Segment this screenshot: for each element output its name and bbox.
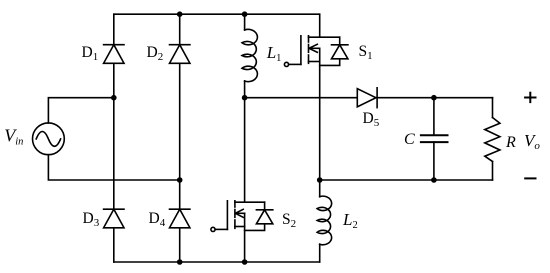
body diode S1	[332, 44, 348, 46]
node C top	[431, 95, 437, 101]
diode D4	[170, 209, 190, 228]
wire D5 to R	[376, 97, 493, 99]
svg-text:Vin: Vin	[4, 125, 23, 147]
svg-text:S2: S2	[282, 211, 296, 230]
wire S1 drain	[319, 14, 321, 37]
channel segments S2	[234, 201, 236, 207]
wire Vin top	[48, 98, 113, 123]
svg-text:D3: D3	[83, 210, 100, 229]
sine wave	[36, 132, 60, 147]
inductor L2	[317, 196, 332, 245]
diode D2	[170, 45, 190, 64]
gate bar S2	[226, 201, 228, 230]
svg-text:L2: L2	[342, 210, 358, 231]
node S1-L2	[317, 177, 323, 183]
wire L2 top	[319, 180, 321, 197]
wire L1 bottom	[244, 81, 246, 98]
svg-text:D5: D5	[363, 110, 380, 129]
wire L2 bottom	[319, 244, 321, 262]
svg-text:R: R	[505, 134, 516, 151]
channel segments S1	[308, 36, 310, 42]
node bottom-D4	[177, 259, 183, 265]
gate lead S1	[289, 63, 301, 65]
gate lead S2	[215, 228, 227, 230]
gate bar S1	[300, 36, 302, 65]
resistor R	[485, 98, 500, 180]
wire L1 column top	[244, 14, 246, 30]
source link S1	[309, 61, 320, 63]
wire top bus	[114, 13, 320, 15]
source Vin	[33, 123, 65, 155]
wire D2-D4 column	[179, 14, 181, 45]
label plus	[524, 92, 536, 103]
label minus	[524, 177, 536, 179]
node top-D2	[177, 11, 183, 17]
wire mid-right bus	[320, 179, 493, 181]
drain link + body loop top S2	[235, 201, 265, 203]
wire mid rail to D5	[245, 97, 358, 99]
svg-text:L1: L1	[266, 43, 282, 64]
svg-text:Vo: Vo	[524, 131, 540, 152]
gate circle S1	[284, 62, 288, 66]
svg-text:D2: D2	[147, 44, 164, 63]
mosfet S1	[284, 14, 348, 180]
node bottom-S2	[242, 259, 248, 265]
wire bottom bus	[114, 261, 320, 263]
diode D1	[104, 45, 124, 64]
node C bottom	[431, 177, 437, 183]
node top-L1	[242, 11, 248, 17]
wire S2 drain column	[244, 98, 246, 203]
node L1-S2-D5	[242, 95, 248, 101]
wire D1-D3 column	[113, 14, 115, 45]
mosfet S2	[211, 201, 273, 262]
body loop right+bottom S2	[245, 202, 265, 230]
wire S1 source	[319, 48, 321, 180]
body arrow S1	[309, 47, 320, 49]
source link S2	[235, 226, 245, 228]
drain link + body loop top S1	[309, 36, 340, 38]
wire S2 source	[244, 213, 246, 262]
diode D5	[357, 88, 377, 108]
svg-text:C: C	[404, 131, 415, 148]
node Vin-D2D4	[177, 177, 183, 183]
body arrow S2	[235, 212, 244, 214]
svg-text:D4: D4	[149, 210, 166, 229]
svg-text:S1: S1	[359, 43, 373, 62]
capacitor C	[421, 98, 448, 180]
inductor L1	[242, 29, 257, 81]
gate circle S2	[211, 227, 215, 231]
wire Vin bottom	[48, 155, 179, 180]
svg-text:D1: D1	[82, 44, 99, 63]
body loop right+bottom S1	[320, 37, 340, 65]
body diode S2	[256, 209, 272, 211]
node Vin-D1D3	[111, 95, 117, 101]
diode D3	[104, 209, 124, 228]
